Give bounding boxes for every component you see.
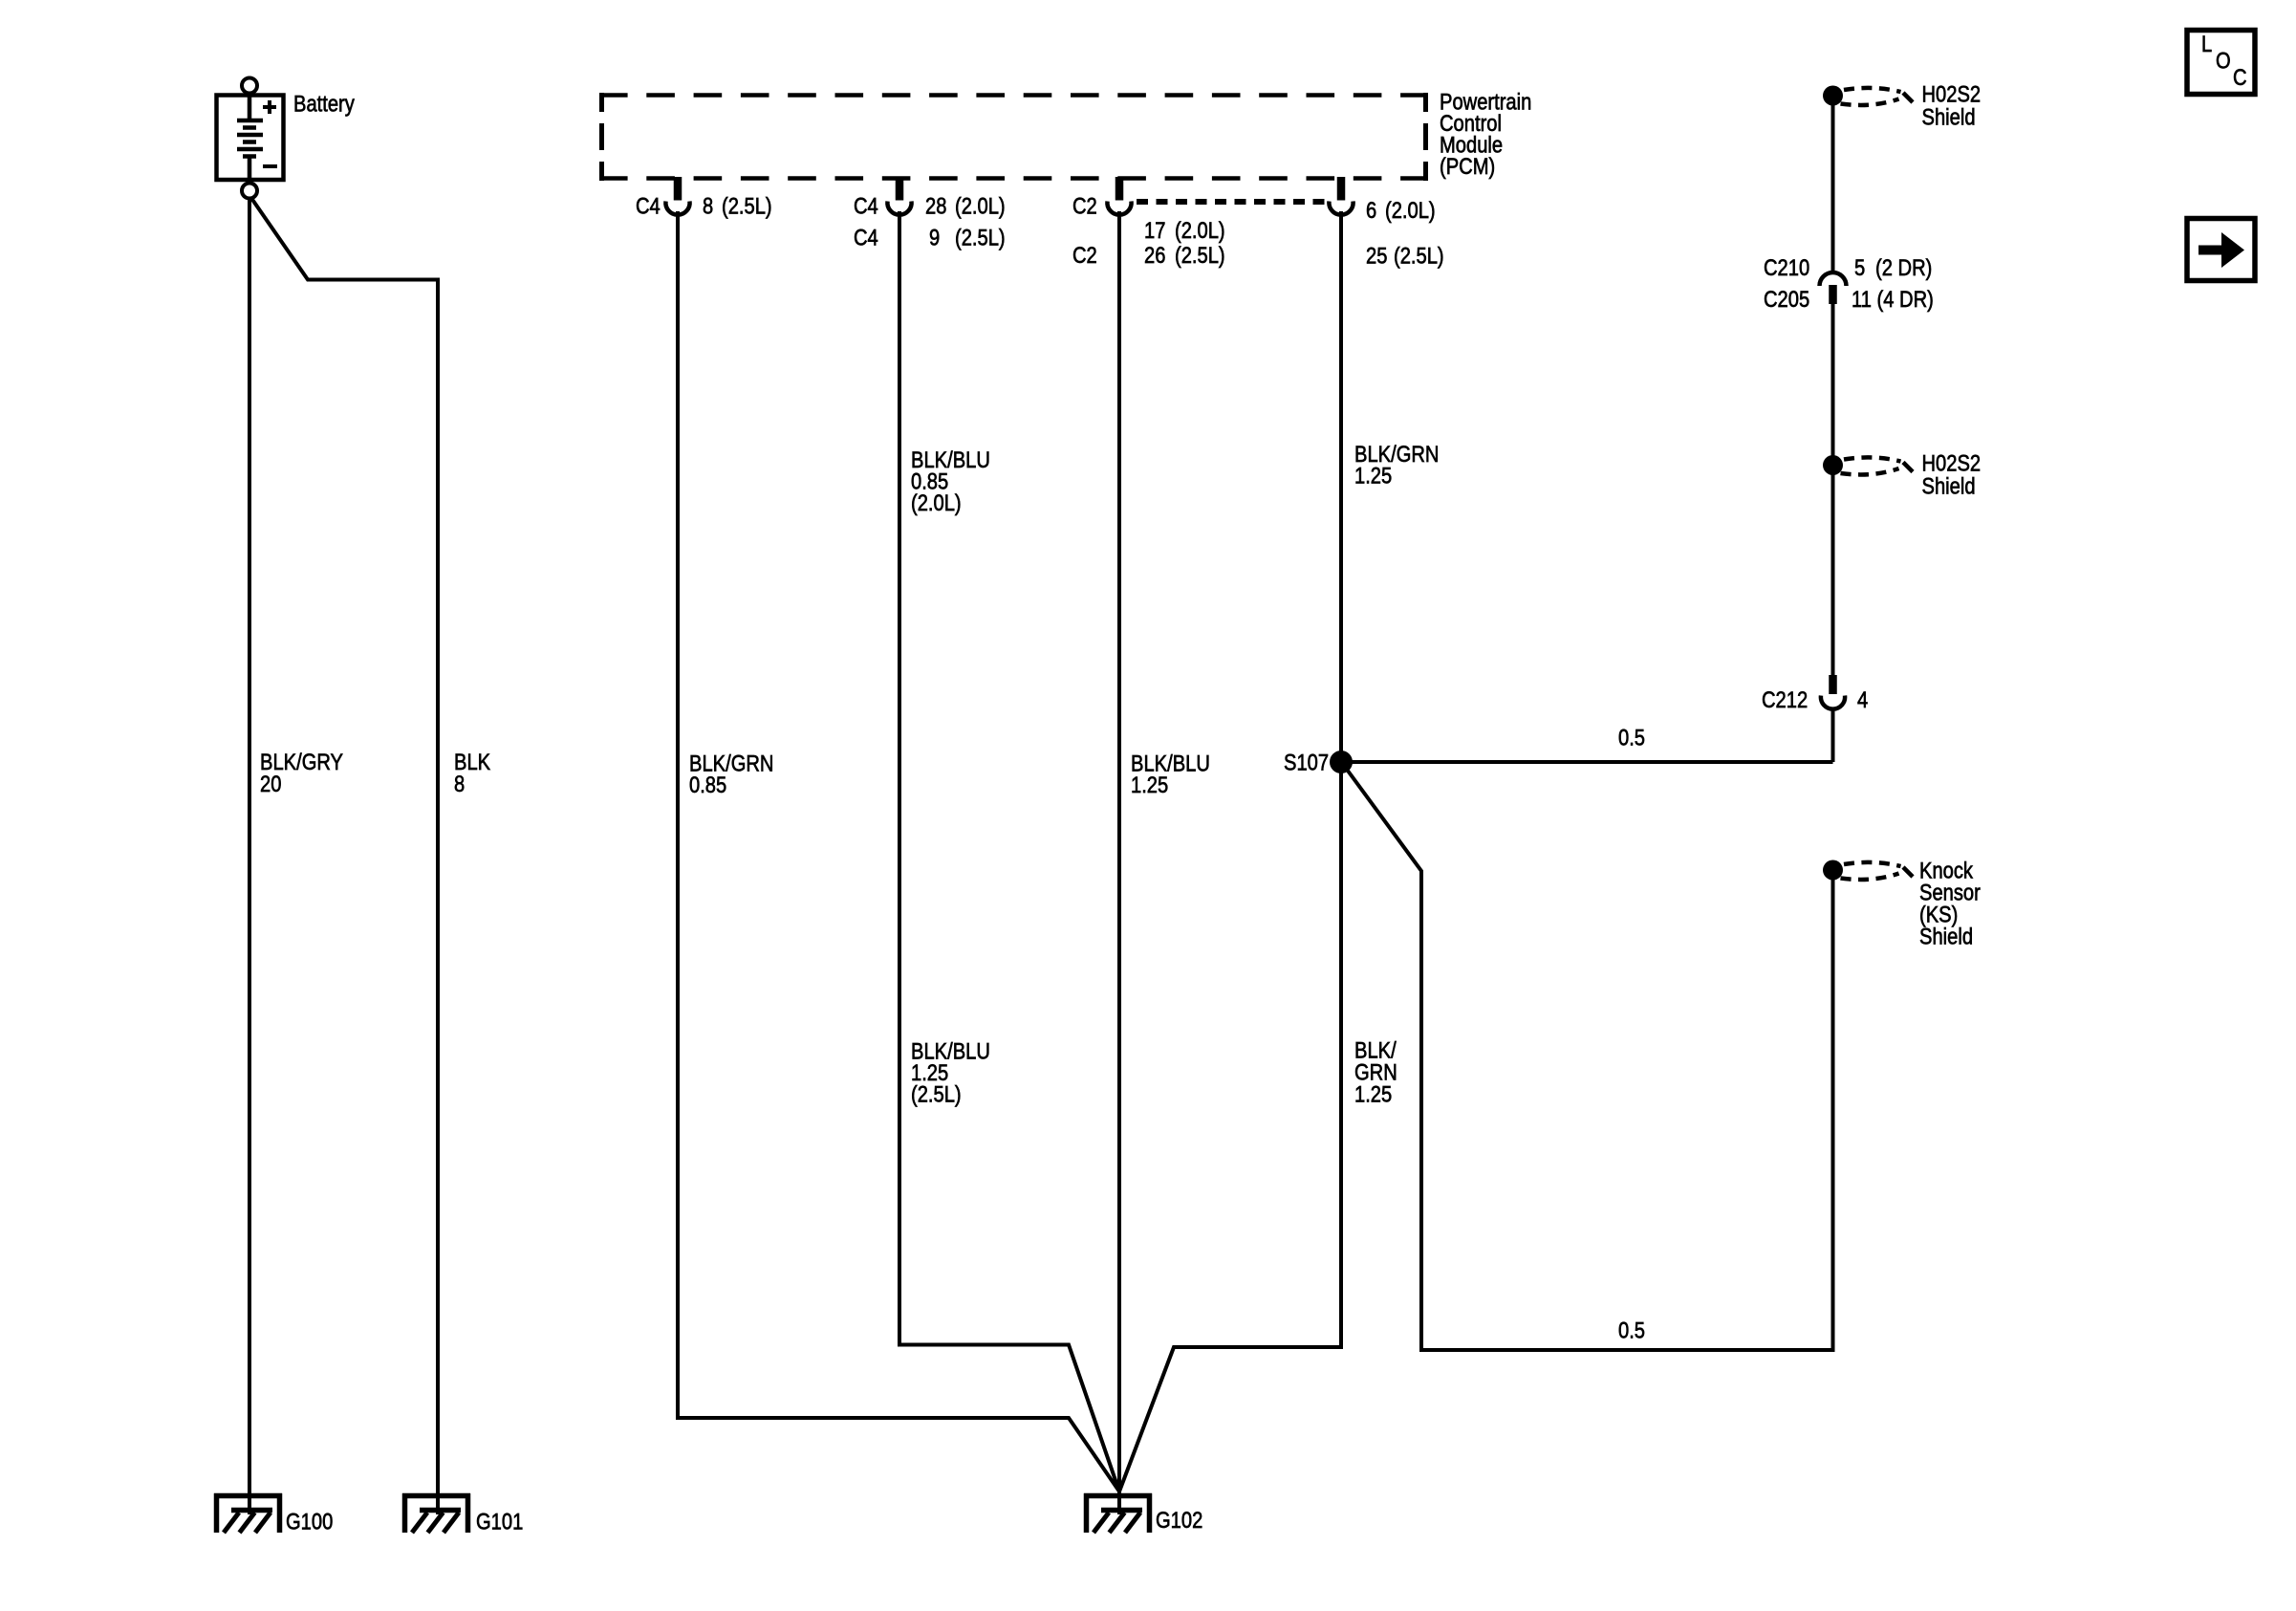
svg-text:(2.5L): (2.5L) bbox=[1175, 242, 1225, 268]
ground G102 bbox=[1084, 1493, 1202, 1533]
wire pin1 to G102 (BLK/GRN 0.85) bbox=[678, 211, 1119, 1491]
svg-text:(2.0L): (2.0L) bbox=[955, 193, 1006, 219]
svg-text:8: 8 bbox=[703, 193, 713, 219]
svg-text:C210: C210 bbox=[1764, 254, 1809, 280]
PCM pin stub C4-8 bbox=[674, 177, 682, 201]
pin 4 labels bbox=[1366, 197, 1444, 269]
svg-text:26: 26 bbox=[1144, 242, 1165, 268]
svg-text:25: 25 bbox=[1366, 243, 1387, 269]
svg-text:C4: C4 bbox=[854, 193, 878, 219]
wire battery negative to G100 (BLK/GRY 20) bbox=[248, 197, 251, 1514]
connector C210/C205 stub bbox=[1829, 285, 1837, 304]
C2 connector dashed line bbox=[1137, 199, 1326, 205]
wire color label BLK/BLU 1.25 bbox=[1131, 751, 1210, 798]
wire color label BLK/GRN 1.25 bbox=[1354, 441, 1439, 489]
pin 2 labels bbox=[854, 193, 1006, 250]
wire S107 to C212 column (0.5) bbox=[1341, 760, 1833, 764]
wire S107 to G102 bbox=[1119, 762, 1341, 1491]
svg-text:0.5: 0.5 bbox=[1618, 1317, 1645, 1343]
battery plus sign bbox=[263, 100, 276, 114]
svg-text:C2: C2 bbox=[1072, 242, 1097, 268]
svg-text:5: 5 bbox=[1854, 254, 1865, 280]
PCM pin cup C4-28/9 bbox=[887, 202, 911, 215]
splice S107 bbox=[1330, 751, 1353, 773]
svg-text:17: 17 bbox=[1144, 217, 1165, 243]
svg-text:(2 DR): (2 DR) bbox=[1875, 254, 1932, 280]
wire pin3 to G102 (BLK/BLU 1.25) bbox=[1117, 211, 1121, 1514]
svg-text:Battery: Battery bbox=[293, 91, 356, 117]
svg-text:11: 11 bbox=[1852, 286, 1872, 312]
ground G100 bbox=[214, 1493, 333, 1535]
PCM pin stub C2-6/25 bbox=[1337, 177, 1346, 201]
PCM pin stub C4-28/9 bbox=[896, 177, 904, 201]
wire battery negative to G101 (BLK 8) bbox=[251, 198, 439, 1515]
svg-text:(2.5L): (2.5L) bbox=[955, 225, 1006, 250]
svg-text:0.5: 0.5 bbox=[1618, 725, 1645, 751]
svg-text:(2.0L): (2.0L) bbox=[1175, 217, 1225, 243]
battery B+ terminal bbox=[242, 78, 257, 94]
svg-text:(2.5L): (2.5L) bbox=[1394, 243, 1444, 269]
svg-text:20: 20 bbox=[260, 771, 281, 796]
svg-text:28: 28 bbox=[925, 193, 946, 219]
svg-text:C205: C205 bbox=[1764, 286, 1809, 312]
PCM pin stub C2-17/26 bbox=[1116, 177, 1124, 201]
arrow reference box bbox=[2187, 219, 2255, 281]
pin 3 labels bbox=[1072, 193, 1225, 269]
wire color label BLK/GRN 0.85 bbox=[689, 751, 773, 798]
wire color label BLK/GRN 1.25 lower bbox=[1354, 1037, 1397, 1107]
svg-text:(PCM): (PCM) bbox=[1440, 153, 1495, 179]
svg-text:C2: C2 bbox=[1072, 193, 1097, 219]
svg-text:1.25: 1.25 bbox=[1354, 1081, 1392, 1107]
svg-text:C: C bbox=[2233, 64, 2247, 90]
svg-text:G100: G100 bbox=[286, 1509, 333, 1535]
pin 1 labels bbox=[636, 193, 772, 219]
ground G101 bbox=[402, 1493, 523, 1535]
svg-text:4: 4 bbox=[1857, 686, 1868, 712]
wire pin2 to G102 (BLK/BLU) bbox=[899, 211, 1119, 1491]
svg-text:O: O bbox=[2216, 48, 2231, 74]
PCM dashed box bbox=[599, 93, 1428, 181]
PCM label bbox=[1440, 89, 1531, 180]
wire S107 to knock sensor shield (0.5) bbox=[1345, 767, 1833, 1350]
right column wire top (HO2S2 drain) bbox=[1831, 103, 1835, 272]
svg-text:S107: S107 bbox=[1284, 750, 1329, 775]
svg-text:Shield: Shield bbox=[1922, 104, 1976, 130]
HO2S2 shield node 1 bbox=[1823, 86, 1843, 106]
svg-text:C212: C212 bbox=[1762, 686, 1808, 712]
PCM pin cup C2-6/25 bbox=[1329, 202, 1353, 215]
wire to C212 bbox=[1831, 473, 1835, 676]
svg-text:0.85: 0.85 bbox=[689, 772, 726, 797]
battery cells bbox=[237, 96, 263, 181]
svg-text:Shield: Shield bbox=[1922, 473, 1976, 499]
battery minus sign bbox=[263, 164, 277, 168]
svg-text:L: L bbox=[2201, 31, 2212, 56]
svg-text:C4: C4 bbox=[636, 193, 661, 219]
connector C210/C205 arc bbox=[1820, 272, 1847, 286]
LOC reference box bbox=[2187, 31, 2255, 95]
battery B- terminal bbox=[242, 184, 257, 199]
svg-text:(2.5L): (2.5L) bbox=[911, 1081, 962, 1107]
knock sensor shield node bbox=[1823, 860, 1843, 881]
wire C205 to HO2S2 shield 2 bbox=[1831, 304, 1835, 457]
knock sensor shield leader bbox=[1841, 862, 1914, 880]
svg-text:(2.5L): (2.5L) bbox=[722, 193, 772, 219]
wire color labels left bbox=[260, 749, 490, 796]
wire color label BLK/BLU 1.25 (2.5L) bbox=[911, 1038, 990, 1107]
wire pin4 to S107 (BLK/GRN 1.25) bbox=[1339, 211, 1343, 762]
svg-text:8: 8 bbox=[454, 771, 465, 796]
svg-text:(2.0L): (2.0L) bbox=[1385, 197, 1436, 223]
connector C212 cup bbox=[1821, 696, 1845, 709]
connector C212 stub bbox=[1829, 675, 1837, 694]
svg-text:C4: C4 bbox=[854, 225, 878, 250]
wire C212 to S107 corner bbox=[1831, 708, 1835, 762]
svg-text:G102: G102 bbox=[1156, 1507, 1202, 1533]
battery box bbox=[217, 96, 284, 181]
PCM pin cup C4-8 bbox=[665, 202, 689, 215]
HO2S2 shield leader 1 bbox=[1841, 88, 1914, 105]
svg-text:(4 DR): (4 DR) bbox=[1877, 286, 1934, 312]
HO2S2 shield node 2 bbox=[1823, 455, 1843, 475]
C212 labels bbox=[1762, 686, 1868, 712]
C210/C205 labels bbox=[1764, 254, 1934, 312]
svg-text:1.25: 1.25 bbox=[1354, 463, 1392, 489]
svg-text:9: 9 bbox=[929, 225, 940, 250]
svg-text:6: 6 bbox=[1366, 197, 1376, 223]
HO2S2 shield leader 2 bbox=[1841, 457, 1914, 474]
wire color label BLK/BLU 0.85 (2.0L) bbox=[911, 446, 990, 515]
svg-text:(2.0L): (2.0L) bbox=[911, 490, 962, 515]
PCM pin cup C2-17/26 bbox=[1107, 202, 1131, 215]
svg-text:1.25: 1.25 bbox=[1131, 772, 1168, 797]
svg-text:G101: G101 bbox=[476, 1509, 523, 1535]
svg-text:Shield: Shield bbox=[1919, 924, 1973, 949]
